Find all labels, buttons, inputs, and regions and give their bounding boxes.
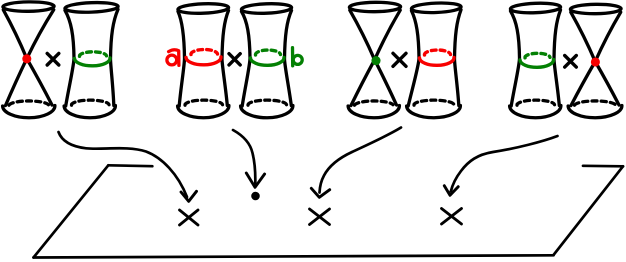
vanishing cycle (green circle on H5) <box>520 53 554 67</box>
arrow A3 (D2 x H4 -> plane) <box>311 128 401 198</box>
vertex node (green dot of D2) <box>371 56 380 65</box>
hyperboloid H3 <box>241 3 293 118</box>
product cross x1 <box>47 53 59 65</box>
plane node dot (image of H2 x H3) <box>251 192 260 201</box>
plane node x (image of D2 x H4) <box>310 209 330 225</box>
arrow A2 (H2 x H3 -> plane) <box>233 130 265 187</box>
plane right edge <box>554 166 624 255</box>
hyperboloid H1 <box>64 2 118 118</box>
hyperboloid H4 <box>407 2 462 118</box>
plane top edge left segment <box>108 164 152 168</box>
vanishing cycle (red circle on H2) <box>186 50 221 65</box>
product cross x2 <box>229 54 240 65</box>
double cone D1 <box>3 2 55 118</box>
vertex node (red dot of D3) <box>591 57 600 66</box>
plane node x (image of D1 x H1) <box>180 210 199 225</box>
plane top edge right segment <box>583 164 623 167</box>
label b (green) <box>293 48 303 66</box>
hyperboloid H5 <box>510 2 561 117</box>
arrow A4 (H5 x D3 -> plane) <box>444 136 557 195</box>
label a (red) <box>167 50 179 66</box>
vanishing cycle (green circle on H3) <box>251 50 285 65</box>
vertex node (red dot of D1) <box>22 54 31 63</box>
vanishing cycle (red circle on H4) <box>420 50 455 65</box>
hyperboloid H2 <box>178 3 229 118</box>
double cone D2 <box>348 2 401 118</box>
vanishing cycle (green circle on H1) <box>75 52 111 66</box>
plane left edge <box>34 165 109 257</box>
plane bottom edge <box>34 255 554 257</box>
product cross x4 <box>565 56 577 68</box>
double cone D3 <box>568 4 622 118</box>
plane (parallelogram base) <box>34 165 624 257</box>
plane node x (image of H5 x D3) <box>442 209 462 225</box>
product cross x3 <box>393 53 406 66</box>
arrow A1 (D1 x H1 -> plane) <box>59 132 197 201</box>
